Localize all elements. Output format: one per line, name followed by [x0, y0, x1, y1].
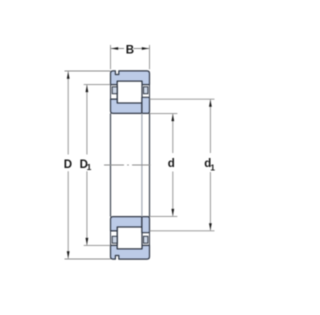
d1 arrow bottom — [209, 223, 212, 230]
d extension line bottom — [150, 215, 178, 217]
B dimension line — [111, 48, 150, 50]
D1 arrow top — [86, 85, 89, 92]
D extension line bottom — [65, 258, 111, 260]
bore silhouette line left — [110, 113, 112, 216]
d arrow bottom — [171, 209, 174, 216]
roller upper — [117, 81, 142, 103]
d1 dimension line — [209, 99, 211, 231]
flange ring seam line on bore — [141, 113, 143, 216]
D1 dimension line — [86, 85, 88, 246]
face line lower left outer — [110, 231, 112, 246]
roller lower — [117, 227, 142, 249]
lower cross-section group (mirror of upper) — [111, 217, 150, 260]
D dimension line — [67, 71, 69, 259]
d arrow top — [171, 114, 174, 121]
loose flange ring upper — [142, 97, 150, 113]
face line lower left inner — [116, 231, 118, 246]
B extension line right — [149, 45, 151, 69]
D extension line top — [65, 70, 111, 72]
d1 extension line top — [150, 98, 215, 100]
B extension line left — [110, 45, 112, 69]
svg-text:d: d — [168, 158, 175, 170]
svg-text:B: B — [126, 44, 134, 56]
centerline axis — [104, 164, 151, 166]
B arrow left — [111, 47, 118, 50]
B arrow right — [142, 47, 149, 50]
face line lower right inner — [141, 233, 143, 246]
face line upper left outer — [110, 85, 112, 100]
face line lower right outer — [149, 233, 151, 246]
d1 arrow top — [209, 100, 212, 107]
d extension line top — [150, 113, 178, 115]
d1 extension line bottom — [150, 230, 215, 232]
inner ring upper section — [111, 99, 142, 113]
D arrow top — [67, 72, 70, 79]
cage bar lower left — [112, 236, 117, 243]
bore silhouette line right — [149, 113, 151, 216]
face line upper left inner — [116, 85, 118, 100]
cage bar upper left — [112, 87, 117, 94]
svg-text:1: 1 — [210, 162, 215, 172]
inner ring lower section — [111, 217, 142, 231]
D1 arrow bottom — [86, 238, 89, 245]
D1 extension line top — [84, 84, 111, 86]
outer ring lower section — [111, 245, 150, 259]
loose flange ring lower — [142, 217, 150, 233]
svg-text:D: D — [64, 159, 72, 171]
d dimension line — [172, 114, 174, 217]
D1 extension line bottom — [84, 244, 111, 246]
D arrow bottom — [67, 251, 70, 258]
face line upper right outer — [149, 85, 151, 98]
face line upper right inner — [141, 85, 143, 98]
svg-text:1: 1 — [87, 162, 92, 172]
upper cross-section group — [111, 71, 150, 114]
outer ring upper section — [111, 71, 150, 85]
cage bar lower right — [144, 236, 148, 243]
cage bar upper right — [144, 87, 148, 94]
